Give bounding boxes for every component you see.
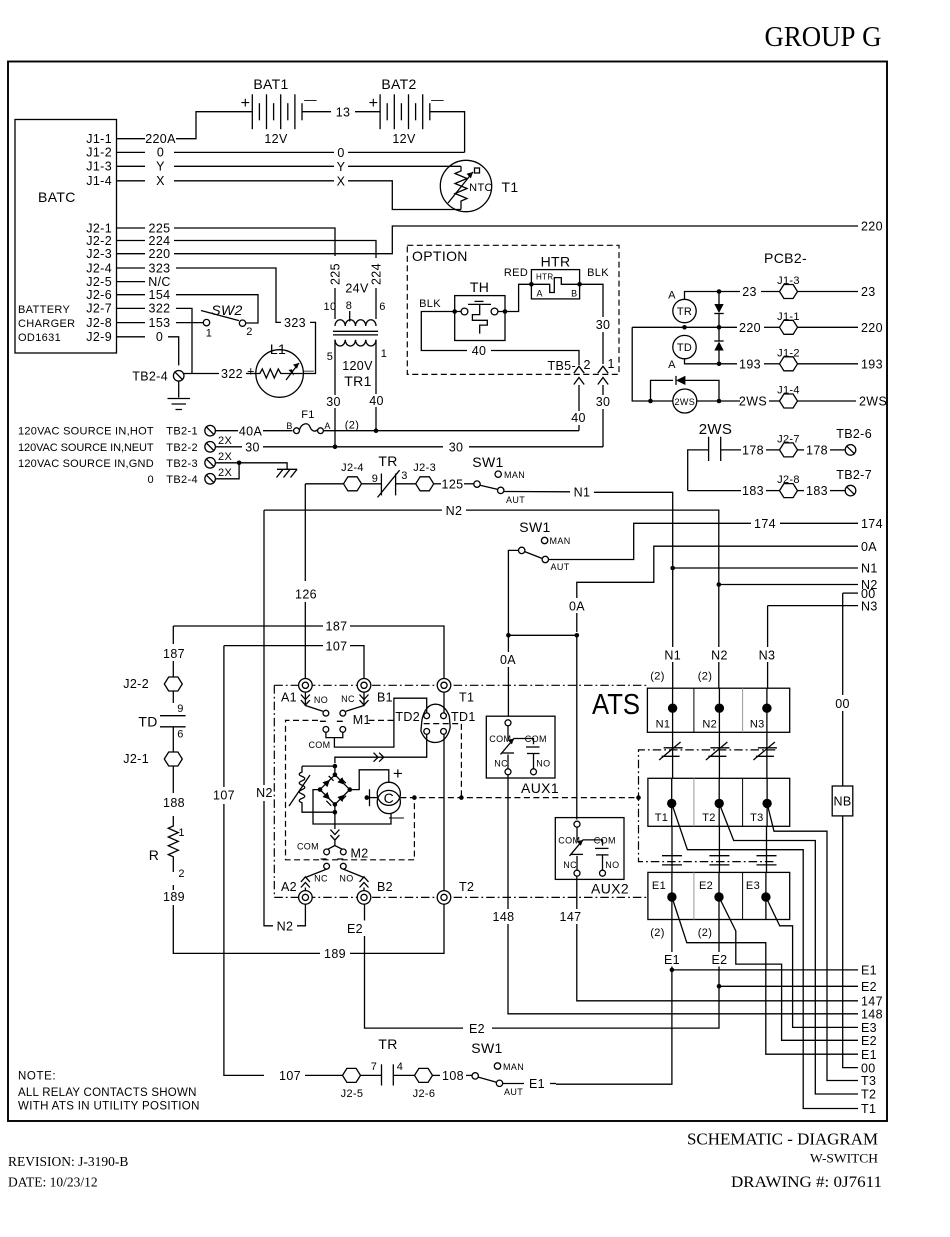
ATS T contact block xyxy=(648,778,790,826)
svg-text:BLK: BLK xyxy=(587,267,609,279)
svg-text:30: 30 xyxy=(326,395,341,409)
connector pin J2-3 xyxy=(416,477,434,491)
svg-text:0: 0 xyxy=(148,474,154,486)
svg-text:E2: E2 xyxy=(861,980,877,994)
svg-text:120VAC SOURCE IN,NEUT: 120VAC SOURCE IN,NEUT xyxy=(18,442,154,454)
svg-text:N1: N1 xyxy=(656,719,671,731)
svg-text:(2): (2) xyxy=(698,927,713,939)
svg-text:TR: TR xyxy=(378,1036,397,1052)
svg-text:174: 174 xyxy=(754,517,776,531)
svg-text:COM: COM xyxy=(525,734,547,744)
terminal screw TB2-2 xyxy=(205,442,216,453)
svg-text:107: 107 xyxy=(213,789,235,803)
wire TR1 pin 40 lead xyxy=(375,340,377,394)
svg-text:T1: T1 xyxy=(501,179,518,195)
wire T3 to right rail xyxy=(767,803,858,1080)
svg-text:—: — xyxy=(431,93,444,107)
svg-text:BATTERY: BATTERY xyxy=(18,304,70,316)
svg-text:MAN: MAN xyxy=(550,536,571,546)
svg-text:125: 125 xyxy=(442,477,464,491)
connector pin J2-2 xyxy=(164,677,182,691)
svg-text:N/C: N/C xyxy=(148,275,171,289)
svg-text:147: 147 xyxy=(560,910,582,924)
svg-text:2WS: 2WS xyxy=(675,397,696,407)
connector pin J1-1 xyxy=(780,320,798,334)
svg-text:J1-2: J1-2 xyxy=(777,347,800,359)
svg-text:C: C xyxy=(384,790,394,806)
svg-text:322: 322 xyxy=(221,367,243,381)
svg-text:COM: COM xyxy=(308,740,330,750)
svg-text:108: 108 xyxy=(442,1069,464,1083)
svg-text:J2-2: J2-2 xyxy=(86,234,112,248)
svg-text:126: 126 xyxy=(295,588,317,602)
svg-text:(2): (2) xyxy=(698,671,713,683)
svg-text:6: 6 xyxy=(379,301,385,313)
switch SW2 xyxy=(201,311,246,327)
svg-text:—: — xyxy=(389,809,404,826)
svg-text:220: 220 xyxy=(861,220,883,234)
svg-text:40: 40 xyxy=(472,344,487,358)
svg-text:174: 174 xyxy=(861,517,883,531)
svg-text:Y: Y xyxy=(337,160,346,174)
svg-text:2: 2 xyxy=(178,868,184,880)
svg-text:RED: RED xyxy=(504,267,528,279)
terminal A1 xyxy=(299,679,313,693)
svg-text:T3: T3 xyxy=(861,1074,876,1088)
wire net 183 xyxy=(688,490,741,492)
rectifier bridge xyxy=(334,766,336,775)
svg-text:183: 183 xyxy=(806,484,828,498)
svg-text:TR: TR xyxy=(378,453,397,469)
svg-text:N1: N1 xyxy=(861,562,878,576)
svg-text:NB: NB xyxy=(833,795,851,809)
OPTION enclosure xyxy=(407,245,619,374)
ATS N contact block xyxy=(647,688,789,732)
svg-text:23: 23 xyxy=(742,285,757,299)
svg-text:OD1631: OD1631 xyxy=(18,332,61,344)
svg-text:T1: T1 xyxy=(655,812,669,824)
svg-text:TR: TR xyxy=(677,306,692,318)
svg-text:323: 323 xyxy=(284,316,306,330)
terminal T1 xyxy=(437,679,451,693)
wire TR1 pin 30 lead xyxy=(334,340,336,395)
wire M1 common to TD2 top xyxy=(326,698,427,747)
wire net N2 xyxy=(264,509,442,511)
wire TH left to 40 bus xyxy=(421,312,467,351)
contact N1 xyxy=(668,704,677,713)
svg-text:CHARGER: CHARGER xyxy=(18,318,75,330)
wire 0A crossbar xyxy=(508,634,576,636)
svg-text:2X: 2X xyxy=(218,467,232,479)
wire net N1 right xyxy=(670,566,675,571)
isolation bars xyxy=(766,826,768,872)
auxiliary switch AUX1 xyxy=(486,716,555,778)
wire TB2-4 jumper xyxy=(215,463,239,479)
lamp L1 xyxy=(256,350,304,398)
svg-text:189: 189 xyxy=(163,890,185,904)
svg-text:220: 220 xyxy=(149,247,171,261)
wire net 224 xyxy=(174,241,376,259)
isolation bars xyxy=(718,826,720,872)
contact N2 xyxy=(715,704,724,713)
svg-text:224: 224 xyxy=(370,263,384,285)
breaker slash xyxy=(766,732,768,778)
svg-text:2WS: 2WS xyxy=(739,395,767,409)
svg-text:TB2-6: TB2-6 xyxy=(836,427,872,441)
svg-text:1: 1 xyxy=(381,348,387,360)
wire N2 column xyxy=(263,510,265,785)
wire 322 to lamp L1 xyxy=(184,373,219,375)
svg-text:224: 224 xyxy=(149,234,171,248)
wire HTR B to TB5-1 xyxy=(580,284,603,317)
ATS E contact block xyxy=(648,872,790,919)
svg-text:A2: A2 xyxy=(281,880,297,894)
svg-text:24V: 24V xyxy=(345,282,369,296)
svg-text:J2-5: J2-5 xyxy=(86,275,112,289)
switch SW1 third xyxy=(472,1063,503,1087)
svg-text:1: 1 xyxy=(206,328,212,340)
wire net 00 column with NB xyxy=(842,593,844,695)
dash-dot utility row through A1 B1 T1 xyxy=(274,684,647,686)
wire E3 contact to right rail xyxy=(766,897,858,1027)
svg-text:ALL RELAY CONTACTS SHOWN: ALL RELAY CONTACTS SHOWN xyxy=(18,1087,197,1099)
svg-text:NC: NC xyxy=(563,860,577,870)
terminal screw TB2-1 xyxy=(205,425,216,436)
svg-text:147: 147 xyxy=(861,995,883,1009)
contact E2 xyxy=(718,872,720,919)
relay coil 2WS with diode xyxy=(632,327,673,401)
svg-text:2: 2 xyxy=(584,358,591,372)
relay M1 xyxy=(301,695,310,706)
wire T1 to right rail xyxy=(672,803,858,1108)
connector pin J2-6 xyxy=(415,1068,433,1082)
svg-text:J1-4: J1-4 xyxy=(86,174,112,188)
svg-text:AUT: AUT xyxy=(506,495,525,505)
svg-text:E1: E1 xyxy=(861,964,877,978)
svg-text:323: 323 xyxy=(149,261,171,275)
svg-text:TD1: TD1 xyxy=(451,710,476,724)
svg-text:N3: N3 xyxy=(750,719,765,731)
wire 220A from J1-1 to BAT1 + xyxy=(176,112,252,139)
svg-text:J1-3: J1-3 xyxy=(777,275,800,287)
svg-text:ATS: ATS xyxy=(592,689,640,721)
svg-text:220: 220 xyxy=(861,321,883,335)
svg-text:30: 30 xyxy=(245,441,260,455)
wire E1 column xyxy=(671,920,673,953)
svg-text:(2): (2) xyxy=(345,420,360,432)
wire net 147 from AUX2 xyxy=(576,876,578,909)
wire net E1 bottom xyxy=(503,1083,524,1085)
svg-text:E2: E2 xyxy=(699,880,713,892)
svg-text:2X: 2X xyxy=(218,451,232,463)
svg-text:NC: NC xyxy=(341,694,355,704)
svg-text:MAN: MAN xyxy=(503,1062,524,1072)
svg-text:T1: T1 xyxy=(861,1102,876,1116)
svg-text:J1-4: J1-4 xyxy=(777,385,800,397)
terminal A2 xyxy=(299,891,313,905)
wire net 153 xyxy=(176,322,203,324)
svg-text:40A: 40A xyxy=(239,425,263,439)
svg-text:30: 30 xyxy=(449,440,464,454)
svg-text:T2: T2 xyxy=(459,880,474,894)
svg-text:HTR: HTR xyxy=(541,254,571,270)
svg-text:N2: N2 xyxy=(702,719,717,731)
svg-text:T3: T3 xyxy=(750,812,764,824)
wire TD1 bottom to T2 xyxy=(443,734,445,890)
svg-text:TB5-: TB5- xyxy=(548,359,577,373)
svg-text:2WS: 2WS xyxy=(859,395,887,409)
resistor NB xyxy=(832,786,853,816)
svg-text:SW1: SW1 xyxy=(519,519,550,535)
svg-text:N2: N2 xyxy=(277,919,294,933)
linkage dash-dot box xyxy=(639,750,777,862)
wire E1 contact to right rail xyxy=(672,897,858,1054)
drawing frame xyxy=(8,62,887,1122)
wire net 107 xyxy=(224,645,323,647)
connector pin J1-4 xyxy=(780,394,798,408)
svg-text:NOTE:: NOTE: xyxy=(18,1071,56,1083)
svg-text:NO: NO xyxy=(314,695,328,705)
wire net N3 right xyxy=(768,605,858,607)
wire net 00 right xyxy=(843,592,858,594)
svg-text:TB2-7: TB2-7 xyxy=(836,468,872,482)
battery charger connector BATC xyxy=(15,120,117,354)
wire net O to TB2-4 xyxy=(168,337,179,366)
svg-text:A1: A1 xyxy=(281,691,297,705)
fuse F1 xyxy=(215,430,238,432)
svg-text:J2-3: J2-3 xyxy=(86,247,112,261)
svg-text:M2: M2 xyxy=(351,847,369,861)
svg-text:0: 0 xyxy=(337,146,344,160)
wire AUT to net 174 xyxy=(549,523,752,559)
svg-text:(2): (2) xyxy=(650,927,665,939)
svg-text:+: + xyxy=(393,764,403,783)
wire net O xyxy=(174,151,334,153)
wire net X xyxy=(174,180,334,182)
svg-text:WITH ATS IN UTILITY POSITION: WITH ATS IN UTILITY POSITION xyxy=(18,1101,200,1113)
wire T2 to right rail xyxy=(719,803,858,1094)
dashed motor output line xyxy=(400,797,638,799)
wire net 154 xyxy=(176,295,258,323)
svg-text:E1: E1 xyxy=(652,880,666,892)
terminal TB5-1 xyxy=(598,366,608,395)
svg-text:30: 30 xyxy=(596,318,611,332)
svg-text:T2: T2 xyxy=(702,812,716,824)
svg-text:A: A xyxy=(324,421,330,431)
svg-text:E3: E3 xyxy=(746,880,760,892)
svg-text:DATE: 10/23/12: DATE: 10/23/12 xyxy=(8,1175,98,1190)
contact E1 xyxy=(671,872,673,919)
svg-text:NO: NO xyxy=(605,860,619,870)
svg-text:NC: NC xyxy=(494,759,508,769)
svg-text:F1: F1 xyxy=(301,409,315,421)
svg-text:J2-8: J2-8 xyxy=(86,316,112,330)
svg-text:OPTION: OPTION xyxy=(412,248,468,264)
diode D2 xyxy=(714,327,723,364)
svg-text:J2-6: J2-6 xyxy=(413,1088,436,1100)
isolation bars xyxy=(671,826,673,872)
svg-text:SW1: SW1 xyxy=(472,454,503,470)
wire net 323 xyxy=(176,268,281,322)
terminal B2 xyxy=(357,891,371,905)
connector pin J2-1 xyxy=(164,752,182,766)
svg-text:J1-2: J1-2 xyxy=(86,146,112,160)
wire N3 column xyxy=(767,606,769,647)
wire TH right to HTR A xyxy=(498,284,532,311)
svg-text:TB2-2: TB2-2 xyxy=(166,442,198,454)
terminal screw TB2-6 xyxy=(845,445,856,456)
svg-text:BAT2: BAT2 xyxy=(381,76,416,92)
wire 40A row xyxy=(323,430,579,432)
svg-text:J2-4: J2-4 xyxy=(341,462,364,474)
wire 30 row xyxy=(215,446,242,448)
svg-text:—: — xyxy=(303,365,314,377)
svg-text:N2: N2 xyxy=(711,649,728,663)
svg-text:E2: E2 xyxy=(712,953,728,967)
svg-text:J2-6: J2-6 xyxy=(86,288,112,302)
svg-text:COM: COM xyxy=(594,836,616,846)
svg-text:J2-9: J2-9 xyxy=(86,330,112,344)
wire E1 row xyxy=(672,969,858,971)
timer contact TD xyxy=(172,691,174,703)
terminal B1 xyxy=(357,679,371,693)
svg-text:154: 154 xyxy=(149,288,171,302)
connector pin J1-2 xyxy=(780,357,798,371)
svg-text:322: 322 xyxy=(149,302,171,316)
svg-text:N1: N1 xyxy=(574,486,591,500)
wire TB2-3 to chassis ground xyxy=(215,463,287,470)
diode D1 xyxy=(714,292,723,328)
svg-text:NTC: NTC xyxy=(469,182,493,194)
svg-text:TB2-3: TB2-3 xyxy=(166,458,198,470)
connector pin J1-3 xyxy=(780,285,798,299)
wire 107 column xyxy=(223,646,225,787)
svg-text:BLK: BLK xyxy=(419,298,441,310)
thermostat TH xyxy=(455,296,505,341)
svg-text:N3: N3 xyxy=(861,599,878,613)
svg-text:TB2-1: TB2-1 xyxy=(166,426,198,438)
wire E2 row xyxy=(719,985,858,987)
motor brush bar xyxy=(369,789,371,806)
svg-text:A: A xyxy=(668,290,676,302)
svg-text:T1: T1 xyxy=(459,691,474,705)
wire net 125 xyxy=(434,483,441,485)
terminal screw TB2-7 xyxy=(845,485,856,496)
svg-text:1: 1 xyxy=(178,827,184,839)
wire SW1 pivot to AUX1 column (net 0A) xyxy=(508,550,518,632)
wire net 189 xyxy=(173,868,320,953)
svg-text:E2: E2 xyxy=(469,1022,485,1036)
svg-text:120V: 120V xyxy=(342,359,373,373)
wire T1 to TD1 xyxy=(443,692,445,713)
diode D3 freewheel xyxy=(651,376,720,401)
wire TD2 bottom to bridge (arrow) xyxy=(335,734,427,763)
svg-text:+: + xyxy=(247,365,255,379)
svg-text:J2-7: J2-7 xyxy=(86,302,112,316)
wire net 322 xyxy=(176,308,192,373)
svg-text:X: X xyxy=(156,174,165,188)
svg-text:E1: E1 xyxy=(529,1077,545,1091)
connector pin J2-8 xyxy=(780,484,798,498)
svg-text:148: 148 xyxy=(493,910,515,924)
svg-text:NC: NC xyxy=(314,874,328,884)
svg-text:225: 225 xyxy=(329,263,343,285)
svg-text:Y: Y xyxy=(156,160,165,174)
svg-text:178: 178 xyxy=(742,444,764,458)
svg-text:R: R xyxy=(149,847,159,863)
wire net 220 pcb xyxy=(632,326,737,328)
svg-text:E2: E2 xyxy=(861,1034,877,1048)
svg-text:SCHEMATIC - DIAGRAM: SCHEMATIC - DIAGRAM xyxy=(687,1130,878,1149)
varistor xyxy=(299,766,335,812)
svg-text:J1-3: J1-3 xyxy=(86,160,112,174)
wire bridge right to motor plus xyxy=(350,770,389,790)
svg-text:5: 5 xyxy=(327,351,333,363)
svg-text:TD: TD xyxy=(677,342,692,354)
wire net 178 xyxy=(688,450,709,491)
svg-text:W-SWITCH: W-SWITCH xyxy=(810,1152,878,1166)
svg-text:0: 0 xyxy=(157,146,164,160)
svg-text:B2: B2 xyxy=(377,880,393,894)
svg-text:107: 107 xyxy=(279,1069,301,1083)
svg-text:220: 220 xyxy=(739,321,761,335)
thermistor T1 (NTC) xyxy=(440,160,493,211)
wire net 0A xyxy=(577,546,858,598)
wire net 187 xyxy=(173,625,323,627)
svg-text:E1: E1 xyxy=(664,953,680,967)
svg-text:J1-1: J1-1 xyxy=(86,132,112,146)
svg-text:NO: NO xyxy=(536,759,550,769)
contact N3 xyxy=(762,704,771,713)
svg-text:GROUP G: GROUP G xyxy=(765,21,882,53)
svg-text:148: 148 xyxy=(861,1008,883,1022)
svg-text:8: 8 xyxy=(346,300,352,312)
svg-text:J2-3: J2-3 xyxy=(413,462,436,474)
svg-text:N1: N1 xyxy=(664,649,681,663)
battery BAT1 xyxy=(252,94,302,129)
svg-text:COM: COM xyxy=(297,842,319,852)
svg-text:M1: M1 xyxy=(353,713,371,727)
chassis ground xyxy=(277,469,298,477)
dashed link TD1 to motor line xyxy=(424,724,462,798)
wire N2 column xyxy=(718,582,720,647)
svg-text:N2: N2 xyxy=(446,504,463,518)
breaker slash xyxy=(718,732,720,778)
svg-text:—: — xyxy=(304,93,317,107)
svg-text:A: A xyxy=(537,289,543,299)
auxiliary switch AUX2 xyxy=(555,818,624,880)
svg-text:HTR: HTR xyxy=(536,273,554,282)
relay coil TR xyxy=(673,299,696,322)
svg-text:B: B xyxy=(571,289,577,299)
wire net 225 xyxy=(174,228,335,256)
svg-text:3: 3 xyxy=(401,470,407,482)
svg-text:00: 00 xyxy=(835,697,850,711)
svg-text:MAN: MAN xyxy=(504,470,525,480)
svg-text:BAT1: BAT1 xyxy=(253,76,288,92)
contact T3 xyxy=(766,778,768,826)
svg-text:0: 0 xyxy=(156,330,163,344)
svg-text:BATC: BATC xyxy=(38,189,76,205)
svg-text:0A: 0A xyxy=(500,653,516,667)
svg-text:2X: 2X xyxy=(218,435,232,447)
wire bridge left to motor minus xyxy=(313,790,391,824)
terminal screw TB2-4 xyxy=(173,371,184,382)
svg-text:40: 40 xyxy=(571,411,586,425)
svg-text:E1: E1 xyxy=(861,1048,877,1062)
svg-text:AUT: AUT xyxy=(551,562,570,572)
inner dashed box xyxy=(286,720,415,859)
